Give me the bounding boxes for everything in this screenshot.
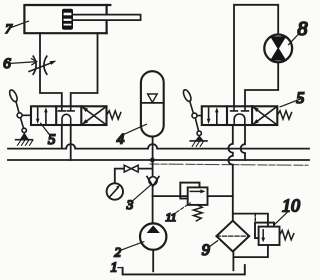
U5R crossed position — [252, 106, 277, 125]
U5R centre position n-connection — [234, 114, 245, 125]
pump P2 — [140, 223, 166, 249]
manual lever of valve U5R — [182, 89, 202, 136]
label 11 — [165, 203, 190, 224]
svg-text:1: 1 — [111, 261, 118, 276]
U5L left position arrows — [38, 108, 46, 123]
wire valve U5R return drop with hops — [228, 125, 232, 221]
hydraulic motor M8 — [264, 35, 292, 63]
spring of valve U5L — [107, 111, 121, 119]
pressure gauge — [107, 183, 123, 199]
wire gauge branch — [115, 169, 153, 184]
directional valve U5R body — [202, 106, 277, 125]
svg-text:3: 3 — [126, 197, 134, 212]
U5L crossed position — [81, 106, 106, 125]
wire pump suction — [152, 250, 154, 271]
wire cylinder right port to valve U5L port — [71, 33, 98, 106]
throttle valve 6 — [29, 56, 57, 74]
spring of valve U5R — [277, 111, 291, 119]
tank T1 — [123, 265, 245, 274]
U5L centre position n-connection — [62, 114, 71, 125]
label 10 — [275, 195, 300, 224]
label 7 — [5, 21, 28, 36]
wire relief valve V11 to return drop — [208, 195, 233, 197]
directional valve U5L body — [31, 106, 107, 125]
wire valve U5L port to pressure bus — [70, 125, 72, 160]
label 1 — [111, 261, 123, 276]
wire filter branch to bypass valve V10 — [233, 214, 268, 227]
U5R centre position blocked ports — [231, 106, 249, 111]
filter F9 — [216, 221, 249, 252]
wire filter to tank — [232, 252, 234, 271]
U5R left position arrows — [209, 108, 217, 123]
wire motor supply left — [234, 5, 278, 106]
U5L centre position blocked ports — [58, 106, 74, 111]
wire cylinder left port to valve U5L port — [40, 33, 62, 106]
pressure bus line — [8, 159, 309, 161]
wire valve V10 bottom to filter outlet — [233, 245, 268, 257]
label 6 — [3, 56, 37, 72]
wire pump line to relief valve V11 — [153, 195, 188, 197]
svg-text:10: 10 — [282, 195, 300, 215]
faint artifact line — [150, 164, 308, 165]
wire accumulator / pump riser — [152, 137, 154, 224]
label 4 — [117, 124, 147, 147]
check valve — [147, 177, 159, 187]
label 8 — [289, 18, 308, 45]
wire motor return — [245, 62, 278, 106]
fulcrum ground of lever U5R — [190, 135, 207, 146]
pilot line of valve V10 — [254, 214, 256, 223]
accumulator 4 — [141, 71, 164, 136]
return bus line with hops — [8, 144, 309, 149]
svg-text:8: 8 — [298, 18, 308, 40]
label 9 — [202, 241, 218, 259]
svg-text:2: 2 — [115, 244, 122, 259]
svg-text:11: 11 — [165, 210, 176, 224]
wire valve U5L port to return bus — [61, 125, 63, 149]
svg-text:7: 7 — [5, 21, 12, 36]
cylinder C7 — [24, 5, 140, 33]
label 3 — [126, 185, 151, 212]
label 5 right — [280, 90, 304, 107]
bypass valve V10 — [255, 223, 294, 245]
label 5 left — [41, 123, 56, 148]
junction pump riser to pressure bus — [150, 158, 155, 163]
relief valve V11 — [180, 183, 207, 221]
gauge shutoff valve — [124, 165, 138, 172]
svg-text:6: 6 — [3, 56, 11, 72]
label 2 — [115, 242, 144, 260]
wire valve U5R pressure port with hop — [241, 125, 245, 160]
manual lever of valve U5L — [8, 89, 31, 133]
fulcrum ground of lever U5L — [16, 132, 33, 145]
svg-text:9: 9 — [202, 242, 210, 259]
